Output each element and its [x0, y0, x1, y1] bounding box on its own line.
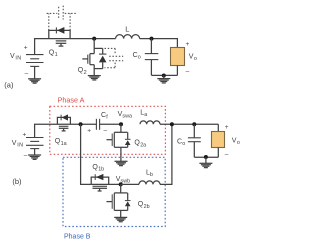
- svg-text:1b: 1b: [98, 167, 104, 173]
- svg-text:1a: 1a: [61, 141, 67, 147]
- svg-text:b: b: [150, 172, 153, 178]
- svg-text:o: o: [237, 140, 240, 146]
- svg-text:–: –: [24, 152, 28, 159]
- svg-text:V: V: [12, 140, 17, 147]
- svg-text:2b: 2b: [144, 204, 150, 210]
- svg-text:IN: IN: [17, 142, 23, 148]
- svg-text:V: V: [10, 53, 15, 60]
- svg-text:+: +: [87, 127, 91, 134]
- svg-text:f: f: [106, 114, 108, 120]
- svg-text:swa: swa: [122, 113, 132, 119]
- svg-text:2a: 2a: [140, 142, 146, 148]
- svg-text:2: 2: [84, 70, 87, 76]
- svg-text:o: o: [194, 56, 197, 62]
- svg-text:C: C: [101, 112, 106, 119]
- svg-text:swb: swb: [121, 179, 131, 185]
- svg-text:o: o: [138, 55, 141, 61]
- svg-text:(a): (a): [4, 81, 14, 90]
- svg-text:a: a: [144, 112, 147, 118]
- svg-text:–: –: [104, 127, 108, 134]
- svg-text:–: –: [225, 151, 229, 158]
- svg-text:(b): (b): [12, 177, 22, 186]
- svg-text:Phase B: Phase B: [64, 233, 91, 240]
- svg-text:L: L: [125, 25, 129, 34]
- svg-text:+: +: [23, 132, 27, 139]
- svg-text:1: 1: [55, 52, 58, 58]
- svg-text:–: –: [186, 69, 190, 76]
- svg-text:+: +: [225, 124, 229, 131]
- svg-text:o: o: [182, 141, 185, 147]
- svg-text:IN: IN: [15, 56, 21, 62]
- svg-text:+: +: [186, 41, 190, 48]
- svg-text:Phase A: Phase A: [58, 95, 85, 104]
- svg-text:+: +: [24, 45, 28, 52]
- svg-text:–: –: [25, 70, 29, 77]
